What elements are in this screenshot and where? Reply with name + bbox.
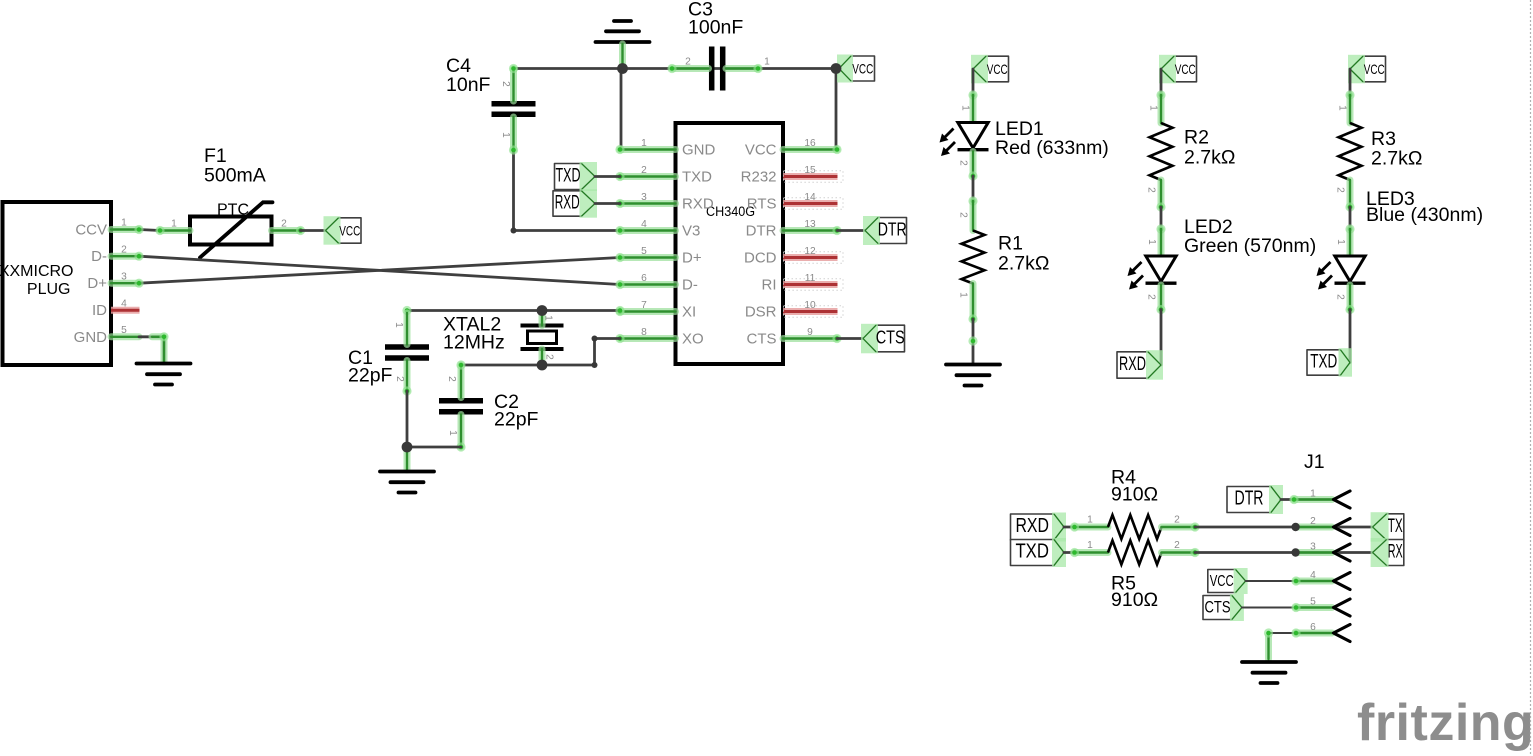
net label VCC (R2) bbox=[1159, 55, 1197, 84]
svg-text:D-: D- bbox=[91, 248, 107, 265]
resistor R1 2.7k bbox=[962, 231, 985, 284]
svg-text:4: 4 bbox=[121, 299, 127, 310]
U1 pin 8 XO bbox=[620, 335, 676, 342]
net label TX (J1) bbox=[1371, 512, 1404, 542]
ground at plug bbox=[137, 364, 191, 385]
resistor R4 910 bbox=[1108, 515, 1161, 539]
svg-text:1: 1 bbox=[1310, 488, 1316, 499]
LED3 pin 1 bbox=[1347, 229, 1354, 256]
U1 pin 12 DCD bbox=[783, 252, 843, 263]
wire RXD flag to U1 bbox=[595, 202, 620, 205]
net label DTR (at U1) bbox=[863, 216, 907, 245]
wire TXD flag to U1 bbox=[595, 175, 620, 178]
U1 pin 16 VCC bbox=[783, 146, 837, 153]
svg-text:2: 2 bbox=[685, 57, 691, 68]
svg-text:RXD: RXD bbox=[1015, 515, 1049, 537]
wire CCV to F1 bbox=[139, 230, 160, 231]
svg-text:2: 2 bbox=[1146, 294, 1157, 300]
svg-text:1: 1 bbox=[1337, 105, 1348, 111]
svg-text:12: 12 bbox=[804, 246, 816, 257]
J1 pin 4 bbox=[1296, 578, 1332, 585]
wire VCC rail down to U1 GND pin bbox=[620, 69, 623, 150]
svg-text:PLUG: PLUG bbox=[27, 281, 71, 298]
svg-text:2: 2 bbox=[394, 376, 405, 382]
svg-text:5: 5 bbox=[121, 325, 127, 336]
svg-text:DTR: DTR bbox=[746, 223, 777, 240]
svg-text:3: 3 bbox=[641, 192, 647, 203]
U1 pin 3 RXD bbox=[620, 200, 676, 207]
C1 pin 1 bbox=[404, 313, 411, 345]
J1 pin 1 bbox=[1294, 496, 1332, 503]
ground at J1 bbox=[1242, 662, 1296, 683]
svg-text:J1: J1 bbox=[1304, 451, 1325, 473]
wire DTR to J1 pin1 bbox=[1281, 498, 1334, 501]
U1 pin 1 GND bbox=[620, 146, 676, 153]
R3 pin 1 bbox=[1347, 95, 1354, 123]
svg-text:1: 1 bbox=[1148, 105, 1159, 111]
resistor R3 2.7k bbox=[1339, 123, 1362, 180]
svg-text:5: 5 bbox=[1310, 596, 1316, 607]
ground stub wire bbox=[619, 44, 626, 69]
svg-text:TXD: TXD bbox=[1015, 541, 1049, 563]
crystal XTAL2 12MHz bbox=[521, 326, 564, 350]
svg-text:2: 2 bbox=[446, 376, 457, 382]
U1 pin 13 DTR bbox=[783, 227, 837, 234]
LED1 pin 2 bbox=[970, 152, 977, 177]
plug pin 2 D- bbox=[111, 253, 139, 260]
wire LED2 to RXD flag bbox=[1160, 310, 1163, 366]
junction J1 pin2 bbox=[1291, 523, 1299, 531]
U1 pin 6 D- bbox=[620, 281, 676, 288]
svg-text:CTS: CTS bbox=[1205, 599, 1231, 617]
svg-text:1: 1 bbox=[447, 430, 458, 436]
svg-text:CTS: CTS bbox=[876, 327, 905, 348]
svg-text:11: 11 bbox=[805, 273, 816, 284]
capacitor C3 100nF bbox=[712, 47, 723, 91]
svg-text:DSR: DSR bbox=[745, 304, 777, 321]
svg-text:2: 2 bbox=[1310, 516, 1316, 527]
C3 pin 2 bbox=[672, 65, 709, 72]
svg-text:2: 2 bbox=[641, 165, 647, 176]
XTAL2 pin 1 bbox=[539, 311, 546, 326]
connector J2 XXMICRO PLUG body bbox=[3, 202, 112, 365]
net label RXD (J1) bbox=[1011, 513, 1067, 542]
LED1 pin 1 bbox=[970, 95, 977, 123]
svg-text:1: 1 bbox=[960, 105, 971, 111]
svg-text:2.7kΩ: 2.7kΩ bbox=[1371, 148, 1422, 170]
U1 pin 5 D+ bbox=[620, 254, 676, 261]
svg-text:VCC: VCC bbox=[987, 62, 1008, 77]
svg-text:2: 2 bbox=[1335, 187, 1346, 193]
wire XO net bbox=[461, 339, 620, 366]
svg-text:XI: XI bbox=[682, 304, 696, 321]
junction ground node C1 C2 bbox=[402, 442, 413, 453]
net label TXD (LED3) bbox=[1307, 348, 1352, 377]
svg-text:XXMICRO: XXMICRO bbox=[0, 263, 74, 280]
svg-text:CTS: CTS bbox=[747, 331, 777, 348]
svg-text:1: 1 bbox=[121, 218, 127, 229]
J1 pin 3 bbox=[1296, 549, 1332, 556]
J1 pin 2 bbox=[1296, 524, 1332, 531]
wire R4 to J1 pin2 and TX bbox=[1195, 526, 1373, 529]
wire C2 to ground node bbox=[407, 446, 461, 449]
svg-text:100nF: 100nF bbox=[688, 17, 743, 39]
wire plug D- to U1 D- bbox=[139, 256, 620, 284]
svg-text:RI: RI bbox=[762, 277, 777, 294]
svg-text:2: 2 bbox=[1146, 187, 1157, 193]
R2 pin 2 bbox=[1158, 180, 1165, 207]
wire C1 down to ground node bbox=[406, 391, 409, 447]
R1 pin 1 bbox=[970, 284, 977, 320]
LED2 pin 2 bbox=[1158, 285, 1165, 310]
wire VCC rail down to U1 VCC pin bbox=[835, 69, 838, 150]
ground at R1 bbox=[946, 365, 1000, 386]
R3 pin 2 bbox=[1347, 180, 1354, 207]
net label VCC (R3) bbox=[1348, 55, 1386, 84]
svg-text:1: 1 bbox=[543, 315, 554, 321]
junction J1 pin3 bbox=[1291, 548, 1299, 556]
svg-text:1: 1 bbox=[1087, 515, 1093, 526]
op-amp U1 CH340G body bbox=[676, 123, 784, 364]
svg-text:6: 6 bbox=[641, 273, 647, 284]
net label TXD (at U1) bbox=[555, 162, 598, 191]
U1 pin 15 R232 bbox=[783, 171, 843, 182]
net label RXD (LED2) bbox=[1117, 350, 1163, 380]
page edge line bbox=[1530, 0, 1532, 756]
svg-text:2: 2 bbox=[1174, 515, 1180, 526]
svg-text:Red (633nm): Red (633nm) bbox=[995, 137, 1109, 159]
svg-text:10: 10 bbox=[804, 300, 816, 311]
svg-text:VCC: VCC bbox=[1364, 62, 1385, 77]
svg-text:D-: D- bbox=[682, 277, 698, 294]
R5 pin 1 bbox=[1075, 549, 1109, 556]
capacitor C2 22pF bbox=[439, 401, 483, 412]
svg-text:VCC: VCC bbox=[1175, 62, 1196, 77]
svg-text:RXD: RXD bbox=[555, 193, 580, 214]
plug pin 1 CCV bbox=[111, 226, 139, 233]
plug pin 4 ID (unconnected) bbox=[111, 307, 140, 314]
svg-text:2: 2 bbox=[500, 81, 511, 87]
svg-text:GND: GND bbox=[682, 142, 716, 159]
svg-text:XO: XO bbox=[682, 331, 704, 348]
svg-text:2: 2 bbox=[1335, 294, 1346, 300]
svg-text:3: 3 bbox=[1310, 541, 1316, 552]
svg-text:DTR: DTR bbox=[878, 219, 907, 240]
wire R5 to J1 pin3 and RX bbox=[1195, 551, 1373, 554]
wire VCC flag to J1 pin4 bbox=[1246, 580, 1334, 582]
plug pin 5 GND bbox=[111, 333, 139, 340]
wire LED1 to R1 bbox=[972, 176, 975, 201]
svg-text:14: 14 bbox=[804, 192, 816, 203]
svg-text:RTS: RTS bbox=[747, 196, 777, 213]
U1 pin 9 CTS bbox=[783, 335, 837, 342]
resistor R5 910 bbox=[1108, 541, 1161, 565]
svg-text:TXD: TXD bbox=[1310, 352, 1337, 373]
svg-text:4: 4 bbox=[1310, 570, 1316, 581]
fuse F1 PTC body bbox=[190, 202, 273, 258]
resistor R2 2.7k bbox=[1150, 123, 1173, 180]
net label VCC (top rail) bbox=[837, 55, 875, 83]
svg-text:GND: GND bbox=[74, 329, 108, 346]
svg-text:7: 7 bbox=[641, 300, 647, 311]
svg-text:1: 1 bbox=[641, 138, 647, 149]
svg-text:TX: TX bbox=[1388, 515, 1403, 537]
svg-text:2.7kΩ: 2.7kΩ bbox=[998, 253, 1049, 275]
wire R1 to ground bbox=[972, 319, 975, 364]
wire XI net bbox=[407, 309, 620, 312]
wire RXD flag to R4 bbox=[1064, 526, 1075, 529]
wire R3 to LED3 bbox=[1349, 207, 1352, 229]
svg-text:D+: D+ bbox=[87, 275, 107, 292]
net label VCC (at F1) bbox=[324, 216, 362, 245]
C4 pin 1 bbox=[510, 117, 517, 150]
junction VCC node bbox=[831, 63, 842, 74]
svg-text:PTC: PTC bbox=[217, 202, 249, 219]
net label CTS (J1) bbox=[1203, 594, 1244, 621]
svg-text:910Ω: 910Ω bbox=[1111, 589, 1158, 611]
svg-text:1: 1 bbox=[958, 292, 969, 298]
wire plug D+ to U1 D+ bbox=[139, 258, 620, 284]
R4 pin 2 bbox=[1162, 524, 1196, 531]
junction crystal pin2 node bbox=[537, 360, 548, 371]
svg-text:1: 1 bbox=[500, 132, 511, 138]
junction XI crystal node bbox=[537, 305, 548, 316]
svg-text:DTR: DTR bbox=[1235, 488, 1264, 510]
wire VCC to R3 bbox=[1349, 69, 1352, 95]
R2 pin 1 bbox=[1158, 95, 1165, 123]
wire C4 to U1 V3 bbox=[514, 150, 621, 231]
svg-text:1: 1 bbox=[1335, 239, 1346, 245]
svg-text:ID: ID bbox=[92, 302, 107, 319]
ground stub under C1 bbox=[404, 447, 411, 470]
F1 pin 1 bbox=[160, 227, 190, 234]
U1 pin 2 TXD bbox=[620, 173, 676, 180]
svg-text:fritzing: fritzing bbox=[1357, 694, 1533, 752]
svg-text:R2: R2 bbox=[1184, 127, 1209, 149]
ground at C1/C2 bbox=[380, 472, 434, 493]
svg-text:2: 2 bbox=[281, 219, 287, 230]
svg-text:1: 1 bbox=[764, 57, 770, 68]
svg-text:TXD: TXD bbox=[682, 169, 712, 186]
svg-text:2: 2 bbox=[958, 212, 969, 218]
svg-text:3: 3 bbox=[121, 272, 127, 283]
svg-text:2: 2 bbox=[121, 245, 127, 256]
svg-text:22pF: 22pF bbox=[348, 365, 393, 387]
wire top VCC rail bbox=[514, 67, 837, 70]
svg-text:1: 1 bbox=[171, 219, 177, 230]
capacitor C4 10nF bbox=[492, 104, 536, 115]
svg-text:Blue (430nm): Blue (430nm) bbox=[1366, 204, 1483, 226]
junction top ground node bbox=[617, 63, 628, 74]
U1 pin 10 DSR bbox=[783, 306, 843, 317]
svg-text:D+: D+ bbox=[682, 250, 702, 267]
svg-text:5: 5 bbox=[641, 246, 647, 257]
svg-text:16: 16 bbox=[804, 138, 816, 149]
XTAL2 pin 2 bbox=[539, 349, 546, 365]
svg-text:10nF: 10nF bbox=[446, 74, 491, 96]
net label DTR (J1) bbox=[1227, 485, 1283, 514]
svg-text:2: 2 bbox=[544, 354, 555, 360]
svg-text:12MHz: 12MHz bbox=[443, 332, 505, 354]
U1 pin 14 RTS bbox=[783, 198, 843, 209]
elbow XO bend bottom bbox=[592, 362, 598, 368]
F1 pin 2 bbox=[272, 227, 301, 234]
R4 pin 1 bbox=[1075, 524, 1109, 531]
svg-text:1: 1 bbox=[1087, 540, 1093, 551]
svg-text:1: 1 bbox=[1146, 239, 1157, 245]
U1 pin 7 XI bbox=[620, 308, 676, 315]
wire CTS flag to J1 pin5 bbox=[1242, 607, 1334, 609]
LED3 pin 2 bbox=[1347, 285, 1354, 310]
LED LED2 Green bbox=[1128, 256, 1177, 290]
svg-text:VCC: VCC bbox=[852, 62, 873, 77]
svg-text:CCV: CCV bbox=[75, 222, 107, 239]
wire plug GND to ground bbox=[139, 337, 164, 364]
capacitor C1 22pF bbox=[385, 347, 429, 358]
svg-text:15: 15 bbox=[804, 165, 816, 176]
wire CTS bbox=[837, 337, 862, 340]
U1 pin 4 V3 bbox=[620, 227, 676, 234]
svg-text:V3: V3 bbox=[682, 223, 700, 240]
svg-text:1: 1 bbox=[393, 322, 404, 328]
svg-text:TXD: TXD bbox=[556, 166, 581, 187]
net label RX (J1) bbox=[1371, 538, 1404, 567]
elbow XO bend top bbox=[592, 336, 598, 342]
U1 pin 11 RI bbox=[783, 279, 843, 290]
C2 pin 2 bbox=[458, 365, 465, 398]
ground at top (inverted) bbox=[596, 21, 650, 42]
R1 pin 2 bbox=[970, 201, 977, 231]
net label CTS (at U1) bbox=[861, 324, 905, 354]
svg-text:RXD: RXD bbox=[1119, 354, 1146, 375]
LED LED1 Red bbox=[940, 123, 989, 157]
wire VCC to R2 bbox=[1160, 69, 1163, 95]
C4 pin 2 bbox=[510, 69, 517, 102]
C1 pin 2 bbox=[404, 361, 411, 392]
svg-text:2: 2 bbox=[958, 160, 969, 166]
plug pin 3 D+ bbox=[111, 280, 139, 287]
LED LED3 Blue bbox=[1317, 256, 1366, 290]
svg-text:R1: R1 bbox=[998, 233, 1023, 255]
svg-text:VCC: VCC bbox=[339, 224, 360, 239]
svg-text:VCC: VCC bbox=[745, 142, 777, 159]
svg-text:910Ω: 910Ω bbox=[1111, 484, 1158, 506]
svg-text:VCC: VCC bbox=[1210, 573, 1234, 590]
J1 pin 5 bbox=[1296, 604, 1332, 611]
svg-text:Green (570nm): Green (570nm) bbox=[1184, 235, 1316, 257]
svg-text:R232: R232 bbox=[741, 169, 777, 186]
net label VCC (LED1) bbox=[971, 55, 1009, 84]
wire TXD flag to R5 bbox=[1064, 551, 1075, 554]
svg-text:8: 8 bbox=[641, 327, 647, 338]
svg-text:6: 6 bbox=[1310, 622, 1316, 633]
LED2 pin 1 bbox=[1158, 229, 1165, 256]
C2 pin 1 bbox=[458, 415, 465, 448]
net label VCC (J1) bbox=[1208, 568, 1248, 594]
svg-text:2.7kΩ: 2.7kΩ bbox=[1184, 147, 1235, 169]
net label RXD (at U1) bbox=[553, 189, 597, 218]
C3 pin 1 bbox=[726, 65, 758, 72]
wire VCC to LED1 bbox=[972, 69, 975, 95]
svg-text:RXD: RXD bbox=[682, 196, 714, 213]
wire F1 to VCC flag bbox=[301, 229, 326, 232]
net label TXD (J1) bbox=[1011, 538, 1067, 567]
svg-text:RX: RX bbox=[1388, 541, 1403, 563]
svg-text:4: 4 bbox=[641, 219, 647, 230]
wire ground to J1 pin6 bbox=[1269, 633, 1334, 660]
svg-text:2: 2 bbox=[1174, 540, 1180, 551]
wire DTR bbox=[837, 229, 864, 232]
elbow C4/V3 bend bbox=[511, 228, 517, 234]
J1 pin 6 bbox=[1296, 630, 1332, 637]
svg-text:DCD: DCD bbox=[744, 250, 777, 267]
R5 pin 2 bbox=[1162, 549, 1196, 556]
wire R2 to LED2 bbox=[1160, 207, 1163, 229]
svg-text:9: 9 bbox=[807, 327, 813, 338]
wire LED3 to TXD flag bbox=[1349, 310, 1352, 363]
svg-text:500mA: 500mA bbox=[204, 165, 266, 187]
svg-text:22pF: 22pF bbox=[494, 409, 539, 431]
svg-text:13: 13 bbox=[804, 219, 816, 230]
